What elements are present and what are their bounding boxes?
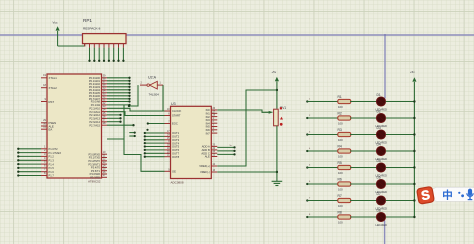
wire D6 to rail: [386, 183, 416, 185]
node net stub row 5: [306, 164, 337, 168]
svg-text:100: 100: [338, 204, 343, 208]
svg-text:P2.7/A15: P2.7/A15: [89, 123, 100, 127]
svg-text:中: 中: [442, 189, 453, 202]
resistor pack RP1 RESPACK-8: [83, 18, 127, 62]
svg-text:D3: D3: [377, 126, 381, 130]
wire D7 to rail: [386, 199, 416, 201]
svg-text:D7: D7: [377, 192, 381, 196]
svg-text:R6: R6: [338, 177, 342, 181]
svg-text:R4: R4: [338, 144, 342, 148]
svg-text:100: 100: [338, 138, 343, 142]
Sogou logo S: [417, 186, 435, 204]
net stub dots: [129, 132, 135, 138]
svg-text:XTAL2: XTAL2: [49, 86, 58, 90]
wire R8 to D8: [350, 216, 376, 218]
wire D1 to rail: [386, 100, 416, 102]
wires P2.4-P2.7 net stubs: [107, 114, 135, 127]
svg-text:Vcc: Vcc: [53, 21, 59, 25]
bus wire vertical drop below D8: [384, 221, 386, 244]
wire P3 row into zigzag: [107, 138, 124, 140]
wire R6 to D6: [350, 183, 376, 185]
svg-text:P2.5/A13: P2.5/A13: [89, 117, 100, 121]
svg-text:RP1: RP1: [83, 18, 92, 23]
wires P2.0-P2.1 net stubs: [107, 100, 131, 106]
LED D1 LED-RED: [376, 93, 388, 111]
LED D5 LED-RED: [376, 159, 388, 177]
wire P2.2 to U3 CLOCK: [107, 108, 165, 111]
wire VREF+ branch: [217, 90, 277, 166]
resistor R3 100: [338, 128, 351, 142]
node net stub row 7: [306, 197, 337, 201]
svg-text:100: 100: [338, 154, 343, 158]
svg-text:OUT6: OUT6: [172, 148, 180, 152]
svg-text:IN7: IN7: [206, 131, 211, 135]
svg-text:P2.6/A14: P2.6/A14: [89, 120, 100, 124]
svg-text:D6: D6: [377, 175, 381, 179]
power +5V at RV1: [272, 70, 280, 109]
svg-text:P1.2: P1.2: [49, 155, 55, 159]
wire R2 to D2: [350, 117, 376, 119]
svg-text:D5: D5: [377, 159, 381, 163]
svg-text:P2.3/A11: P2.3/A11: [90, 110, 101, 114]
LED D7 LED-RED: [376, 192, 388, 210]
wire R1 to D1: [350, 101, 376, 103]
wires P0.0-P0.7 to net stubs: [107, 77, 131, 100]
svg-text:VREF(-): VREF(-): [200, 170, 210, 174]
svg-text:R8: R8: [338, 210, 342, 214]
svg-text:P1.7: P1.7: [49, 174, 55, 178]
wire D5 to rail: [386, 166, 416, 168]
bus wire horizontal net across top: [0, 34, 474, 36]
svg-text:XTAL1: XTAL1: [49, 76, 58, 80]
resistor R6 100: [338, 177, 351, 191]
resistor R4 100: [338, 144, 351, 158]
node net stub row 2: [306, 115, 337, 119]
icon microphone: [466, 189, 474, 201]
wire +5V vertical rail: [413, 82, 415, 217]
bus wire vertical drop to D1: [384, 34, 386, 99]
svg-text:P2.0/A8: P2.0/A8: [91, 100, 101, 104]
svg-text:EOC: EOC: [172, 122, 178, 126]
potentiometer RV1: [274, 106, 287, 126]
svg-text:OUT7: OUT7: [172, 152, 180, 156]
LED D4 LED-RED: [376, 142, 388, 160]
resistor R1 100: [338, 95, 351, 109]
node net stub row 4: [306, 148, 337, 152]
svg-text:+5v: +5v: [410, 70, 415, 74]
svg-text:P3.7/RD: P3.7/RD: [90, 176, 100, 180]
svg-text:OUT2: OUT2: [172, 135, 180, 139]
svg-text:R3: R3: [338, 128, 342, 132]
svg-text:ADC0808: ADC0808: [171, 181, 184, 185]
wire D2 to rail: [386, 117, 416, 119]
wire VREF- to ground net: [217, 171, 277, 173]
svg-text:100: 100: [338, 121, 343, 125]
svg-text:EA: EA: [49, 128, 53, 132]
svg-text:P1.3: P1.3: [49, 159, 55, 163]
svg-text:P1.5: P1.5: [49, 166, 55, 170]
svg-text:P1.6: P1.6: [49, 170, 55, 174]
svg-text:U2:A: U2:A: [148, 76, 157, 80]
wire R7 to D7: [350, 200, 376, 202]
svg-text:START: START: [172, 114, 181, 118]
svg-text:U3: U3: [171, 102, 176, 106]
wire P2.3 to U3 START: [107, 112, 165, 116]
wire R5 to D5: [350, 167, 376, 169]
wire D4 to rail: [386, 150, 416, 152]
icon Chinese mode: [442, 189, 453, 202]
node net stub row 8: [306, 214, 337, 218]
svg-text:74LS04: 74LS04: [149, 92, 160, 96]
svg-text:P1.0/T2: P1.0/T2: [49, 147, 59, 151]
resistor R8 100: [338, 210, 351, 224]
svg-text:LED-RED: LED-RED: [376, 223, 388, 227]
svg-text:OUT5: OUT5: [172, 145, 180, 149]
svg-text:VREF(+): VREF(+): [199, 164, 210, 168]
svg-text:5v: 5v: [230, 145, 232, 147]
wire RV1 bottom to ground net: [276, 126, 278, 181]
svg-text:P1.1/T2EX: P1.1/T2EX: [49, 151, 62, 155]
svg-text:100: 100: [338, 171, 343, 175]
wire U3 EOC net stub: [146, 122, 164, 131]
svg-text:D2: D2: [377, 109, 381, 113]
wire R4 to D4: [350, 150, 376, 152]
svg-text:R5: R5: [338, 161, 342, 165]
svg-text:OUT8: OUT8: [172, 155, 180, 159]
svg-text:R2: R2: [338, 111, 342, 115]
LED D3 LED-RED: [376, 126, 388, 144]
svg-text:P1.4: P1.4: [49, 162, 55, 166]
LED D2 LED-RED: [376, 109, 388, 127]
wire D8 to rail: [386, 216, 416, 218]
wires ADD A/B/C net stubs: [217, 145, 235, 156]
power +5V rail: [410, 70, 417, 82]
svg-text:CLOCK: CLOCK: [172, 109, 181, 113]
svg-text:ALE: ALE: [205, 155, 210, 159]
svg-text:RESPACK-8: RESPACK-8: [83, 27, 101, 31]
resistor R5 100: [338, 161, 351, 175]
LED D8 LED-RED: [376, 208, 388, 226]
icon dots: [458, 192, 464, 198]
wires U3 OUT1-OUT8 net stubs: [144, 132, 165, 158]
resistor R2 100: [338, 111, 351, 125]
LED D6 LED-RED: [376, 175, 388, 193]
wire Vcc to RP1 pin1: [58, 44, 85, 46]
ground: [272, 181, 283, 185]
svg-text:OE: OE: [172, 170, 176, 174]
node net stub row 1: [306, 98, 337, 102]
node net stub row 3: [306, 131, 337, 135]
svg-text:P2.1/A9: P2.1/A9: [91, 103, 101, 107]
svg-text:D4: D4: [377, 142, 381, 146]
svg-text:100: 100: [338, 220, 343, 224]
svg-text:100: 100: [338, 187, 343, 191]
node net stub row 6: [306, 181, 337, 185]
wires P1.0-P1.7 to net stubs: [17, 148, 41, 177]
wire U2:A pin2 down to net stub: [128, 85, 138, 107]
wire D3 to rail: [386, 133, 416, 135]
Sogou input overlay bar: [431, 187, 474, 201]
svg-text:R7: R7: [338, 194, 342, 198]
ADC U3 ADC0808: [165, 102, 218, 185]
svg-text:D8: D8: [377, 208, 381, 212]
svg-text:AT89C52: AT89C52: [88, 180, 101, 184]
wire P2 control zigzag to U3 OE: [124, 105, 165, 171]
wire R3 to D3: [350, 134, 376, 136]
svg-text:100: 100: [338, 105, 343, 109]
svg-text:ADD A: ADD A: [202, 145, 210, 149]
inverter U2:A 74LS04: [140, 76, 163, 97]
svg-text:OUT4: OUT4: [172, 141, 180, 145]
resistor R7 100: [338, 194, 351, 208]
svg-text:D1: D1: [377, 93, 381, 97]
svg-text:+5v: +5v: [272, 70, 277, 74]
svg-text:OUT1: OUT1: [172, 131, 180, 135]
svg-text:P2.4/A12: P2.4/A12: [89, 113, 100, 117]
svg-text:R1: R1: [338, 95, 342, 99]
svg-text:RST: RST: [49, 100, 55, 104]
microcontroller U1 AT89C52: [41, 73, 107, 184]
wire U2:A pin1 down to U3 CLOCK: [163, 85, 165, 111]
power Vcc: [53, 21, 60, 47]
wire IN0 to RV1 wiper: [217, 110, 273, 114]
